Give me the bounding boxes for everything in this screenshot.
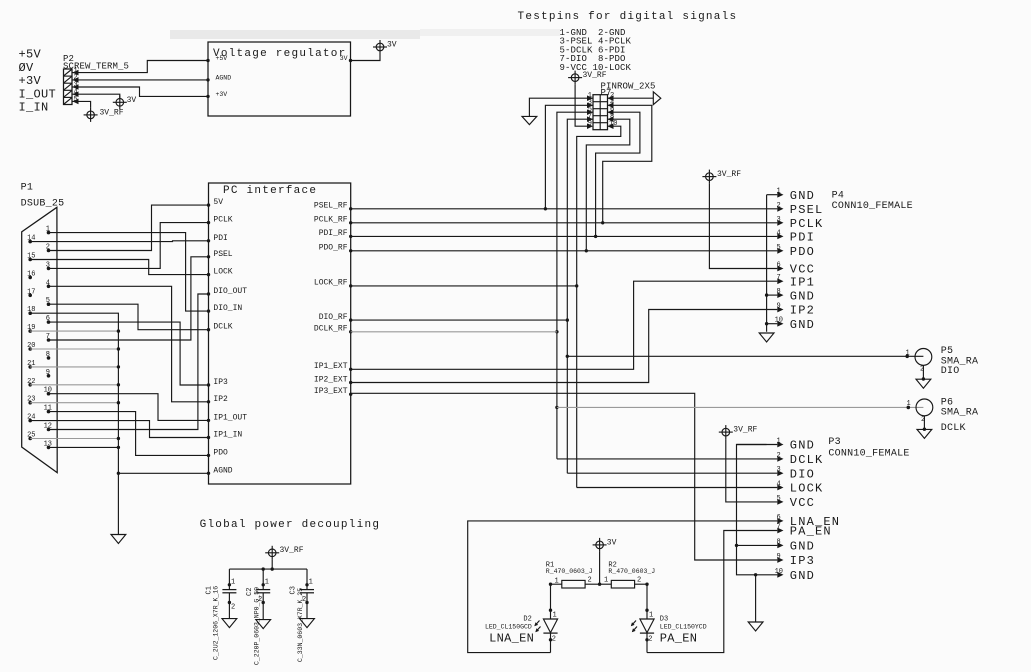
PC interface left pin junction dots [207, 203, 210, 475]
power symbol 3V_RF (P4 VCC) [702, 170, 741, 184]
wire net IP1_EXT [351, 281, 778, 369]
power symbol 3V (P2.4) [113, 95, 137, 109]
ground (P6) [917, 429, 932, 438]
resistor R1 [551, 577, 600, 589]
svg-text:IP3: IP3 [790, 554, 815, 568]
wire P3.8 GND stub [737, 544, 778, 546]
LED D3 light arrows [631, 621, 637, 633]
svg-text:1: 1 [604, 577, 608, 585]
svg-text:1: 1 [777, 188, 781, 196]
wire AGND bus to ground [117, 473, 119, 534]
connector P5 (SMA) [905, 349, 931, 366]
svg-text:PSEL_RF: PSEL_RF [314, 202, 348, 211]
op-amp-box U: Voltage regulator [208, 42, 351, 116]
junction P3.8/bus [735, 544, 738, 547]
svg-text:8: 8 [777, 288, 781, 296]
svg-text:1: 1 [555, 578, 559, 586]
svg-text:DCLK: DCLK [941, 423, 966, 434]
wire 3V_RF to pinrow pin 9 [575, 85, 587, 127]
wire net DCLK to P6 (gray) [557, 406, 924, 408]
wire P1.5 to DCLK [49, 304, 209, 330]
wire P1.10 to IP1_OUT [49, 394, 209, 421]
wire P1.7 to PSEL [49, 257, 209, 340]
wire net LOCK_RF [351, 285, 577, 287]
junction testpin8/PDO_RF [585, 249, 588, 252]
junction bus/C2 [262, 567, 265, 570]
svg-text:DIO_RF: DIO_RF [319, 313, 348, 322]
wire net DIO_RF [351, 319, 566, 321]
wire P1.15 to LOCK [30, 260, 208, 275]
svg-text:5: 5 [777, 244, 781, 252]
connector P1 body (DSUB trapezoid) [22, 207, 58, 472]
wire P1.3 to PCLK [49, 223, 209, 269]
wire P2.4 to 3V [72, 94, 120, 98]
svg-text:7: 7 [777, 274, 781, 282]
svg-text:LOCK_RF: LOCK_RF [314, 279, 348, 288]
wire P4.8 GND stub [767, 294, 778, 296]
P4 pin arrows [777, 192, 783, 327]
junction testpin7/DIO_RF [566, 318, 569, 321]
ground (C1) [222, 619, 237, 628]
wire net IP2_EXT [351, 310, 778, 383]
power symbol 3V_RF (decoupling) [265, 546, 304, 560]
svg-text:PDO: PDO [213, 448, 228, 457]
wire testpin2 GND to off-page [608, 97, 654, 99]
P4 pin numbers [775, 188, 783, 325]
junction P1.20/bus [117, 347, 120, 350]
wire P1.24 to IP1_IN [30, 421, 208, 438]
wire testpin10 LOCK wrap [577, 126, 621, 487]
junction P1.21/bus [117, 365, 120, 368]
svg-text:Testpins for digital signals: Testpins for digital signals [518, 11, 738, 23]
svg-text:ØV: ØV [19, 61, 35, 75]
wire testpin7 DIO drop [567, 119, 593, 473]
svg-text:GND: GND [790, 439, 815, 453]
wire P1.6 to IP3 [49, 322, 209, 385]
wire testpin5 DCLK drop [557, 112, 593, 459]
svg-text:DCLK: DCLK [790, 453, 824, 467]
junction R1.1/D2 [549, 583, 552, 586]
svg-text:AGND: AGND [216, 74, 232, 81]
wire net PDO_RF [351, 250, 778, 252]
wire P3.1 GND stub [737, 444, 778, 446]
svg-text:PCLK: PCLK [213, 216, 232, 225]
wire P1.23 (gray) to AGND bus [30, 402, 118, 404]
svg-text:5: 5 [777, 495, 781, 503]
junction P1.22/bus [117, 383, 120, 386]
svg-text:1: 1 [265, 579, 269, 587]
svg-text:PA_EN: PA_EN [660, 631, 698, 645]
junction testpin6/PDI_RF [594, 235, 597, 238]
ground (C2) [256, 620, 271, 629]
svg-text:9: 9 [777, 553, 781, 561]
svg-text:I_IN: I_IN [19, 100, 49, 114]
wire R1.1 to D2 anode [550, 584, 552, 619]
svg-text:6: 6 [777, 514, 781, 522]
svg-text:3: 3 [777, 466, 781, 474]
wire net PA_EN [647, 531, 777, 653]
ground (AGND bus) [111, 535, 126, 544]
svg-text:3V_RF: 3V_RF [733, 426, 757, 435]
wire P3 ground bus [737, 445, 778, 575]
wire P1.11 to PDO [49, 412, 209, 456]
ground (P4) [759, 333, 774, 342]
ground (P5) [916, 379, 931, 388]
ground (testpins) [522, 116, 537, 124]
wire P1.13 to AGND bus [49, 446, 119, 448]
svg-text:9: 9 [46, 369, 50, 377]
regulator input junction dots [206, 59, 352, 98]
svg-text:GND: GND [790, 540, 815, 554]
power symbol 3V (regulator output) [373, 40, 397, 54]
wire 3V to resistor junction [599, 552, 601, 584]
svg-text:C_2U2_1206_X7R_K_16: C_2U2_1206_X7R_K_16 [213, 586, 220, 660]
wire 3V_RF to P3 VCC [726, 439, 778, 502]
junction P1.19/bus [117, 329, 120, 332]
svg-text:PDO_RF: PDO_RF [319, 244, 348, 253]
junction P1.13/bus [117, 446, 120, 449]
wire testpin8 PDO wrap [586, 119, 630, 251]
P7 left pin arrows [587, 95, 593, 129]
wire 3V_RF to decoupling bus [271, 560, 273, 569]
junction P1.23/bus [117, 401, 120, 404]
ground (C3) [300, 619, 315, 628]
svg-text:3V_RF: 3V_RF [280, 546, 304, 555]
capacitor C2 [256, 569, 270, 620]
P2 pin arrows [73, 70, 79, 104]
junction testpin10/LOCK_RF [575, 284, 578, 287]
wire testpin3 PSEL drop [545, 105, 593, 209]
svg-text:7: 7 [777, 524, 781, 532]
junction P1.25/bus [117, 437, 120, 440]
svg-text:PDI_RF: PDI_RF [319, 229, 348, 238]
wire net DIO to P5 [567, 355, 923, 357]
capacitor C1 [222, 569, 236, 619]
svg-text:2: 2 [302, 596, 306, 604]
svg-text:DIO_IN: DIO_IN [213, 304, 242, 313]
svg-text:LED_CL150GCD: LED_CL150GCD [485, 623, 532, 630]
wire net DCLK_RF (gray) [351, 331, 557, 333]
wire P2.5 to 3V_RF [72, 101, 91, 108]
svg-text:2: 2 [921, 416, 925, 424]
P1 pin numbers 14-25 [27, 235, 35, 440]
svg-text:PCLK_RF: PCLK_RF [314, 216, 348, 225]
wire P4.10 GND stub [767, 323, 778, 325]
svg-text:1: 1 [907, 400, 911, 408]
wire P1.1 to DIO_IN [49, 233, 209, 312]
wire net PDI_RF [351, 235, 778, 237]
svg-text:P5: P5 [941, 346, 954, 357]
svg-text:IP2: IP2 [213, 395, 228, 404]
svg-text:3: 3 [777, 216, 781, 224]
svg-text:5V: 5V [213, 198, 223, 207]
wire P1.12 to DIO_OUT [49, 294, 209, 430]
LED D2 [543, 609, 557, 653]
junction testpin5/DCLK_RF [555, 330, 558, 333]
wire net DCLK to P3.2 [557, 458, 777, 460]
junction testpin4/PCLK_RF [601, 221, 604, 224]
svg-text:D3: D3 [660, 616, 668, 624]
svg-text:10: 10 [775, 568, 783, 576]
P6 pin 2 stub [921, 416, 926, 431]
svg-text:1: 1 [309, 579, 313, 587]
svg-text:VCC: VCC [790, 496, 815, 510]
svg-text:IP1: IP1 [790, 275, 815, 289]
wire net DIO to P3.3 [567, 472, 777, 474]
svg-text:IP1_OUT: IP1_OUT [213, 413, 247, 422]
wire testpin4 PCLK wrap [603, 105, 652, 223]
IC box PC interface [209, 183, 351, 484]
wire P1.2 to 5V [49, 205, 209, 250]
svg-text:DCLK: DCLK [213, 323, 232, 332]
svg-text:DSUB_25: DSUB_25 [21, 199, 65, 210]
svg-text:8: 8 [777, 538, 781, 546]
P7 right pin arrows [608, 95, 614, 129]
svg-text:2: 2 [648, 636, 652, 644]
junction P4.8/bus [765, 293, 768, 296]
svg-text:3V: 3V [607, 538, 617, 547]
svg-text:AGND: AGND [213, 466, 232, 475]
svg-text:PDI: PDI [790, 231, 815, 245]
wire P1.4 to IP2 [49, 286, 209, 402]
wire P2.1 to regulator +5V [72, 61, 208, 73]
capacitor C3 [300, 569, 314, 619]
svg-text:R_470_0603_J: R_470_0603_J [608, 568, 655, 575]
svg-text:1: 1 [649, 612, 653, 620]
junction R2.2/D3 [645, 583, 648, 586]
svg-text:GND: GND [790, 189, 815, 203]
wire P2.2 to regulator AGND [72, 79, 208, 81]
svg-text:+3V: +3V [19, 74, 42, 88]
connector P6 (SMA) [907, 399, 933, 416]
P3 pin numbers [775, 438, 783, 576]
svg-text:16: 16 [27, 270, 35, 278]
wire net IP3_EXT [351, 393, 778, 560]
svg-text:DCLK_RF: DCLK_RF [314, 325, 348, 334]
power symbol 3V_RF (P3 VCC) [719, 425, 758, 439]
power symbol 3V_RF (P2.5) [84, 108, 124, 122]
svg-text:2: 2 [588, 577, 592, 585]
wire net PCLK_RF [351, 222, 778, 224]
junction 3V/R1/R2 [598, 583, 601, 586]
junction DIO/P5 [566, 355, 569, 358]
svg-text:8: 8 [46, 351, 50, 359]
svg-text:LED_CL150YCD: LED_CL150YCD [660, 623, 707, 630]
svg-text:+3V: +3V [216, 91, 228, 98]
svg-text:GND: GND [790, 569, 815, 583]
svg-text:2: 2 [777, 452, 781, 460]
svg-text:IP3: IP3 [213, 378, 228, 387]
wire P4.1 GND stub [767, 194, 778, 196]
LED D3 [640, 609, 654, 653]
svg-text:IP1_EXT: IP1_EXT [314, 362, 348, 371]
faint ghost text artifact top [170, 29, 560, 39]
svg-text:4: 4 [777, 481, 781, 489]
wire net LOCK to P3.4 [577, 487, 778, 489]
svg-text:R_470_0603_J: R_470_0603_J [546, 568, 593, 575]
ground (P3) [748, 622, 763, 631]
svg-text:1: 1 [553, 612, 557, 620]
svg-text:2: 2 [777, 202, 781, 210]
svg-text:2: 2 [258, 596, 262, 604]
connector P7 body [593, 95, 608, 130]
svg-text:D2: D2 [523, 616, 531, 624]
svg-text:PSEL: PSEL [213, 250, 232, 259]
svg-text:DIO: DIO [790, 467, 815, 481]
wire testpin6 PDI wrap [596, 112, 640, 236]
wire regulator 3V output [351, 54, 381, 61]
svg-text:2: 2 [552, 636, 556, 644]
svg-text:P1: P1 [21, 183, 34, 194]
wire P1.18 to AGND bus [30, 313, 208, 473]
svg-text:2: 2 [231, 604, 235, 612]
svg-text:3V_RF: 3V_RF [583, 71, 607, 80]
wire net PSEL_RF [351, 208, 778, 210]
P3 pin arrows [777, 442, 783, 578]
wire P2.3 to regulator +3V [72, 87, 208, 96]
svg-text:GND: GND [790, 289, 815, 303]
svg-text:GND: GND [790, 318, 815, 332]
junction P4.10/bus [765, 322, 768, 325]
wire P1.25 (gray) to AGND bus [30, 438, 118, 440]
svg-text:PDI: PDI [213, 234, 227, 243]
svg-text:IP2_EXT: IP2_EXT [314, 375, 348, 384]
P1 pin dots column 1-13 [47, 231, 51, 449]
svg-text:5: 5 [74, 96, 78, 104]
svg-text:PA_EN: PA_EN [790, 525, 832, 539]
svg-text:PDO: PDO [790, 245, 815, 259]
wire R2.2 to D3 anode [646, 584, 648, 619]
wire P1.14 to PDI [30, 240, 208, 243]
svg-text:6: 6 [777, 262, 781, 270]
wire testpin1 GND [529, 98, 593, 116]
svg-text:Voltage regulator: Voltage regulator [213, 48, 346, 60]
resistor R2 [600, 577, 647, 589]
svg-text:9: 9 [777, 303, 781, 311]
svg-text:3V_RF: 3V_RF [100, 108, 124, 117]
P1 pin dots column 14-25 [28, 240, 32, 441]
junction DCLK/P6 [555, 406, 558, 409]
svg-text:PSEL: PSEL [790, 203, 824, 217]
svg-text:I_OUT: I_OUT [19, 87, 57, 101]
wire decoupling bus [229, 568, 307, 570]
svg-text:LOCK: LOCK [790, 482, 824, 496]
off-page arrow (testpin 2) [653, 92, 661, 105]
wire 3V_RF to P4 VCC [709, 184, 777, 269]
svg-text:DIO_OUT: DIO_OUT [213, 287, 247, 296]
svg-text:3V_RF: 3V_RF [717, 170, 741, 179]
svg-text:LOCK: LOCK [213, 268, 232, 277]
svg-text:1: 1 [777, 438, 781, 446]
junction bus/3V_RF [271, 567, 274, 570]
wire P1.22 (gray) to AGND bus [30, 384, 118, 386]
wire P1.20 (gray) to AGND bus [30, 348, 118, 350]
svg-text:17: 17 [27, 288, 35, 296]
connector P2 body [64, 69, 73, 105]
svg-text:4: 4 [777, 229, 781, 237]
svg-text:1: 1 [906, 349, 910, 357]
svg-text:1: 1 [231, 579, 235, 587]
wire net LNA_EN [468, 521, 778, 653]
svg-text:10: 10 [775, 317, 783, 325]
LED D2 light arrows [534, 621, 540, 633]
svg-text:+5V: +5V [216, 55, 228, 62]
wire P1.21 (gray) to AGND bus [30, 366, 118, 368]
svg-text:IP3_EXT: IP3_EXT [314, 387, 348, 396]
svg-text:IP1_IN: IP1_IN [213, 431, 242, 440]
wire P1.19 (gray) to AGND bus [30, 330, 118, 332]
svg-text:P3: P3 [828, 437, 841, 448]
svg-text:IP2: IP2 [790, 304, 815, 318]
svg-text:2: 2 [920, 366, 924, 374]
svg-text:Global power decoupling: Global power decoupling [200, 519, 381, 531]
svg-text:CONN10_FEMALE: CONN10_FEMALE [832, 201, 913, 212]
svg-text:3V: 3V [340, 55, 348, 62]
svg-text:3V: 3V [387, 41, 397, 50]
svg-text:PCLK: PCLK [790, 217, 824, 231]
wire P4 ground bus [766, 195, 768, 332]
wire P3 bus to ground [755, 575, 757, 622]
power symbol 3V_RF (testpins VCC) [568, 71, 607, 85]
svg-text:SMA_RA: SMA_RA [941, 408, 979, 419]
junction P3 bus/ground branch [754, 573, 757, 576]
PC interface right pin junction dots [349, 207, 352, 396]
junction testpin3/PSEL_RF [544, 207, 547, 210]
svg-text:PC interface: PC interface [223, 185, 317, 197]
svg-text:3V: 3V [127, 96, 137, 105]
P1 pin numbers 1-13 [44, 226, 52, 449]
power symbol 3V (LED circuit) [593, 538, 617, 552]
svg-text:+5V: +5V [19, 48, 42, 62]
svg-text:CONN10_FEMALE: CONN10_FEMALE [828, 448, 909, 459]
svg-text:LNA_EN: LNA_EN [489, 631, 534, 645]
svg-text:2: 2 [637, 577, 641, 585]
svg-text:DIO: DIO [941, 366, 960, 377]
junction AGND bus/ground branch [117, 472, 120, 475]
P5 pin 2 stub [920, 365, 925, 380]
